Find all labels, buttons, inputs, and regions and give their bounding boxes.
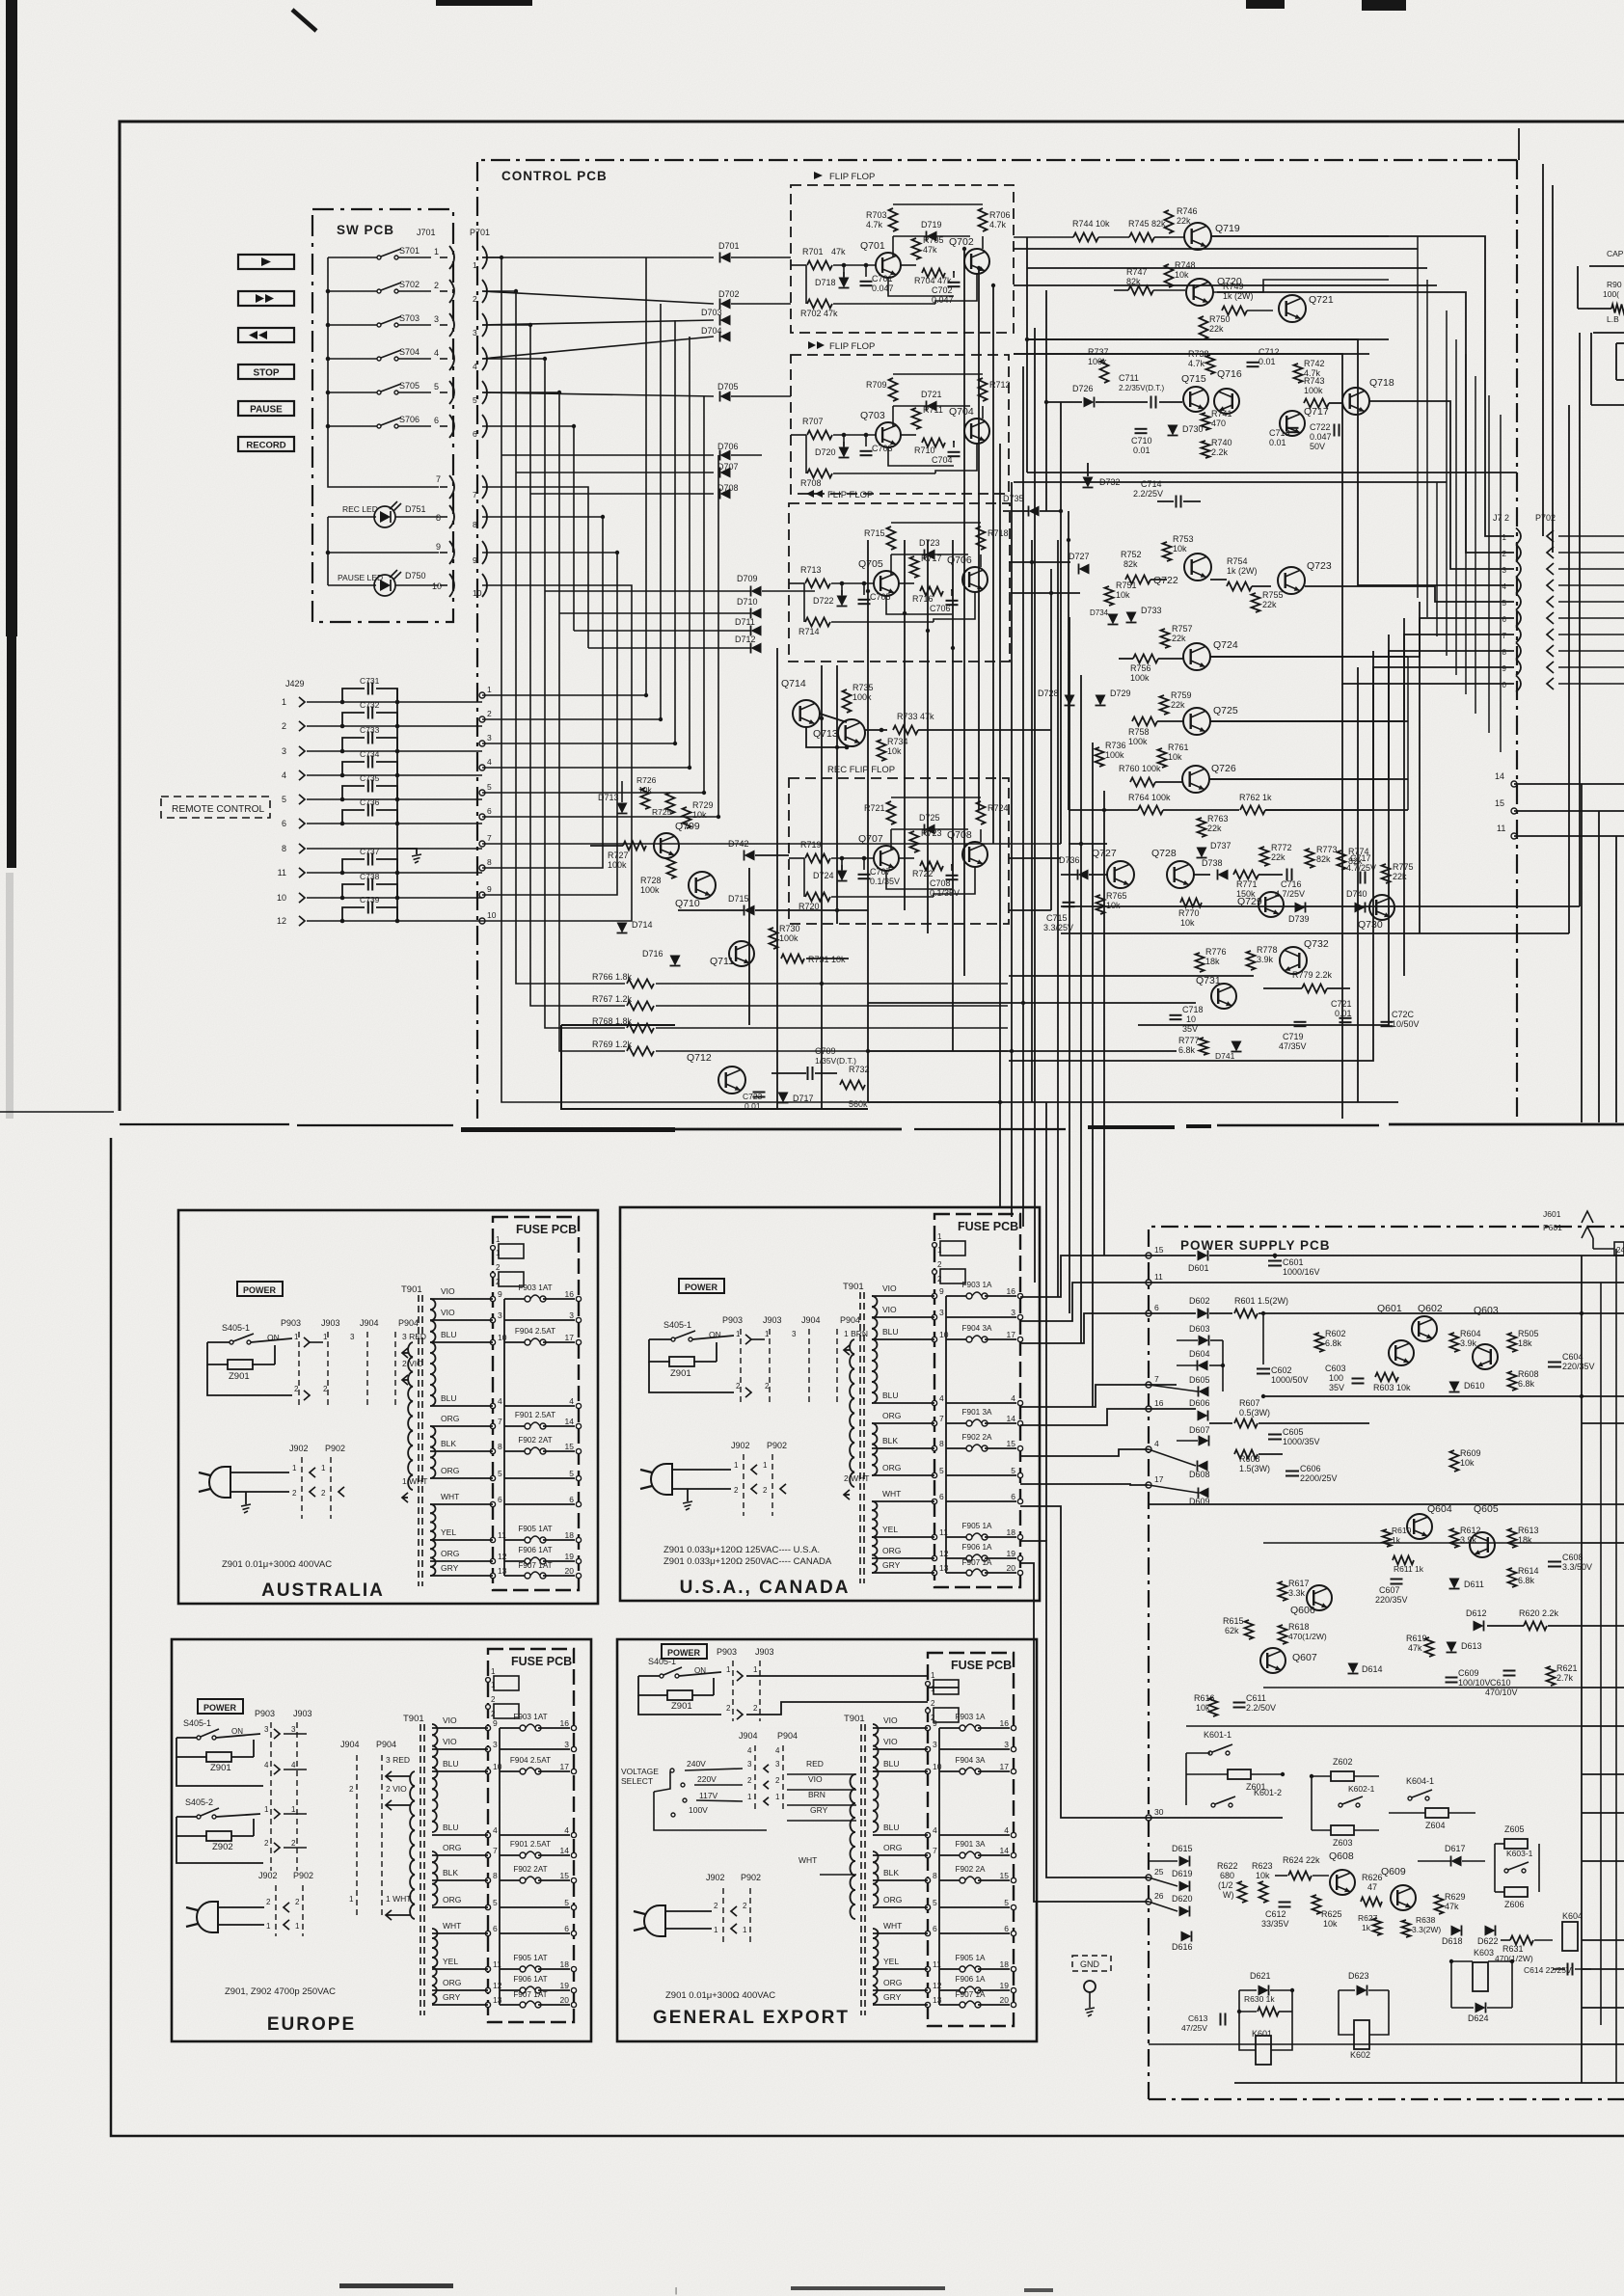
svg-text:7: 7 xyxy=(1154,1374,1159,1384)
USA_CANADA block outer box xyxy=(620,1207,1040,1601)
svg-text:240V: 240V xyxy=(687,1759,706,1769)
svg-text:R765: R765 xyxy=(1106,891,1127,901)
svg-text:10k: 10k xyxy=(1175,270,1189,280)
capacitor C713 xyxy=(1286,427,1299,429)
svg-text:C604: C604 xyxy=(1562,1352,1583,1362)
svg-text:4: 4 xyxy=(498,1396,502,1406)
svg-text:FUSE PCB: FUSE PCB xyxy=(511,1655,572,1668)
svg-text:470(1/2W): 470(1/2W) xyxy=(1288,1632,1327,1641)
svg-text:R763: R763 xyxy=(1207,814,1229,824)
svg-text:5: 5 xyxy=(282,795,286,804)
svg-text:D725: D725 xyxy=(919,813,940,823)
svg-text:F906 1A: F906 1A xyxy=(962,1543,992,1552)
GENERAL_EXPORT varistor Z901 xyxy=(638,1676,667,1695)
svg-text:SELECT: SELECT xyxy=(621,1776,653,1786)
svg-text:3: 3 xyxy=(350,1333,355,1341)
wire FLIP FLOP internals xyxy=(890,554,892,576)
svg-text:CAP: CAP xyxy=(1607,249,1624,258)
capacitor C702 xyxy=(948,282,961,284)
svg-text:R749: R749 xyxy=(1223,282,1244,291)
GENERAL_EXPORT fuse box inner vertical xyxy=(938,1728,940,2005)
diode D601 xyxy=(1149,1255,1196,1256)
svg-text:C736: C736 xyxy=(360,797,380,807)
svg-text:T901: T901 xyxy=(844,1714,865,1724)
svg-text:Q714: Q714 xyxy=(781,678,806,689)
transistor Q709 xyxy=(654,833,679,858)
svg-text:BLK: BLK xyxy=(441,1439,456,1448)
svg-text:100k: 100k xyxy=(779,933,798,943)
svg-text:GRY: GRY xyxy=(441,1563,459,1573)
FLIP FLOP title xyxy=(814,172,823,179)
capacitor C739 xyxy=(342,907,365,921)
diode D710 xyxy=(751,608,762,619)
resistor R742 xyxy=(1294,364,1303,383)
svg-text:3: 3 xyxy=(747,1760,752,1769)
EUROPE fuse row pin 4-4 xyxy=(485,1832,490,1837)
svg-text:13: 13 xyxy=(939,1563,949,1573)
GENERAL_EXPORT fuse row pin 5-5 xyxy=(925,1904,930,1909)
svg-text:4: 4 xyxy=(939,1393,944,1403)
svg-text:7: 7 xyxy=(473,490,477,500)
svg-text:100/10V: 100/10V xyxy=(1458,1678,1491,1688)
svg-text:R756: R756 xyxy=(1130,663,1151,673)
svg-text:D714: D714 xyxy=(632,920,653,930)
svg-text:D624: D624 xyxy=(1468,2013,1489,2023)
bus wire remote pin 2 xyxy=(482,304,661,719)
svg-text:R767 1.2k: R767 1.2k xyxy=(592,994,633,1004)
svg-text:S405-1: S405-1 xyxy=(222,1323,250,1333)
svg-text:1: 1 xyxy=(349,1895,354,1904)
svg-text:19: 19 xyxy=(1007,1549,1016,1558)
wire FLIP FLOP input node xyxy=(843,265,845,277)
transistor Q728 xyxy=(1167,861,1194,888)
svg-text:ORG: ORG xyxy=(441,1414,459,1423)
svg-text:F902 2AT: F902 2AT xyxy=(518,1436,552,1445)
svg-text:R762 1k: R762 1k xyxy=(1239,793,1272,802)
wire FLIP FLOP internals xyxy=(892,236,894,257)
resistor R605 xyxy=(1508,1333,1517,1352)
diode D732 xyxy=(1083,477,1094,488)
EUROPE transformer primary winding xyxy=(410,1771,415,1919)
EUROPE fuse row pin 7-14 xyxy=(485,1852,490,1857)
resistor R717 xyxy=(910,556,919,578)
svg-text:D704: D704 xyxy=(701,326,722,336)
svg-text:F902 2A: F902 2A xyxy=(956,1865,986,1874)
svg-text:1: 1 xyxy=(295,1922,300,1931)
AUSTRALIA varistor Z901 xyxy=(207,1342,229,1364)
resistor R761 xyxy=(1158,748,1167,768)
svg-text:R505: R505 xyxy=(1518,1329,1539,1338)
EUROPE fuse row pin 13-20 xyxy=(485,2002,490,2007)
resistor R617 xyxy=(1279,1581,1287,1601)
svg-text:R732: R732 xyxy=(849,1065,870,1074)
svg-text:J902: J902 xyxy=(706,1873,725,1882)
svg-text:T901: T901 xyxy=(403,1714,424,1724)
svg-text:C72C: C72C xyxy=(1392,1010,1415,1019)
EUROPE fuse row pin 6-6 xyxy=(485,1931,490,1935)
transistor Q708 xyxy=(962,842,988,867)
resistor R610 xyxy=(1383,1529,1392,1547)
diode D702 xyxy=(482,291,714,304)
svg-text:18: 18 xyxy=(565,1530,575,1540)
svg-text:C705: C705 xyxy=(870,592,891,602)
svg-text:R764 100k: R764 100k xyxy=(1128,793,1171,802)
svg-text:100k: 100k xyxy=(640,885,660,895)
svg-text:15: 15 xyxy=(1000,1871,1010,1880)
svg-text:8: 8 xyxy=(498,1442,502,1451)
wire FLIP FLOP internals xyxy=(892,406,894,427)
svg-text:47k: 47k xyxy=(1445,1902,1459,1911)
svg-text:4.7k: 4.7k xyxy=(866,220,883,230)
svg-text:Z901 0.01μ+300Ω 400VAC: Z901 0.01μ+300Ω 400VAC xyxy=(222,1559,332,1570)
svg-text:D611: D611 xyxy=(1464,1580,1484,1589)
svg-text:2: 2 xyxy=(264,1839,269,1848)
EUROPE fuse row pin 9-16 xyxy=(485,1725,490,1730)
capacitor C701 xyxy=(860,281,873,283)
capacitor C603 xyxy=(1352,1378,1365,1380)
svg-text:T901: T901 xyxy=(843,1282,864,1292)
svg-text:R745 82k: R745 82k xyxy=(1128,219,1166,229)
diode D711 xyxy=(751,626,762,636)
svg-text:R722: R722 xyxy=(912,869,934,878)
svg-text:POWER: POWER xyxy=(243,1285,277,1295)
capacitor C717 xyxy=(1360,872,1362,884)
svg-text:2.2/50V: 2.2/50V xyxy=(1246,1703,1276,1713)
wires relay section xyxy=(1185,1753,1187,1805)
svg-text:1: 1 xyxy=(491,1681,496,1689)
bus wire from P701 pin 1 xyxy=(482,257,1003,1102)
svg-text:D751: D751 xyxy=(405,504,426,514)
svg-text:100k: 100k xyxy=(608,860,627,870)
svg-text:4.7k: 4.7k xyxy=(989,220,1007,230)
capacitor C733 xyxy=(342,738,365,751)
svg-text:22k: 22k xyxy=(1271,852,1286,862)
svg-text:1: 1 xyxy=(1502,533,1507,542)
svg-text:8: 8 xyxy=(473,520,477,529)
svg-text:2: 2 xyxy=(291,1839,296,1848)
svg-text:Q721: Q721 xyxy=(1309,294,1334,306)
svg-text:1: 1 xyxy=(291,1805,296,1814)
svg-text:100k: 100k xyxy=(1304,386,1323,395)
diode D727 xyxy=(1079,564,1090,575)
svg-text:2: 2 xyxy=(726,1704,731,1713)
svg-text:CONTROL PCB: CONTROL PCB xyxy=(501,169,608,183)
svg-text:WHT: WHT xyxy=(883,1921,902,1931)
svg-text:F903 1AT: F903 1AT xyxy=(513,1713,547,1721)
svg-text:3 RED: 3 RED xyxy=(386,1755,410,1765)
transistor Q724 xyxy=(1183,643,1210,670)
capacitor C712 xyxy=(1247,362,1259,364)
diode D709 xyxy=(751,586,762,597)
svg-text:R751: R751 xyxy=(1116,581,1137,590)
resistor R757 xyxy=(1161,629,1170,648)
resistor R732 xyxy=(840,1081,865,1090)
svg-text:15: 15 xyxy=(565,1442,575,1451)
svg-text:D716: D716 xyxy=(642,949,663,959)
resistor R738 xyxy=(1206,355,1215,374)
diode D714 xyxy=(617,923,628,933)
svg-text:VIO: VIO xyxy=(883,1737,898,1746)
AUSTRALIA fuse row pin 4-4 xyxy=(490,1403,495,1408)
capacitor C735 xyxy=(342,786,365,799)
svg-text:6: 6 xyxy=(1154,1303,1159,1312)
svg-text:12: 12 xyxy=(498,1552,507,1561)
diode D612 xyxy=(1474,1621,1484,1632)
diode D733 xyxy=(1126,612,1137,623)
svg-text:10k: 10k xyxy=(1116,590,1130,600)
transistor Q723 xyxy=(1278,567,1305,594)
svg-text:6: 6 xyxy=(498,1495,502,1504)
svg-text:R725: R725 xyxy=(652,807,672,817)
svg-text:0.1/35V: 0.1/35V xyxy=(870,877,900,886)
diode D719 xyxy=(893,235,970,237)
capacitor C704 xyxy=(948,451,961,453)
USA_CANADA varistor Z901 xyxy=(649,1339,670,1362)
capacitor C708 xyxy=(946,875,959,877)
AUSTRALIA wire to pin 2 xyxy=(207,1364,292,1395)
transistor Q705 xyxy=(874,571,899,596)
svg-text:Q726: Q726 xyxy=(1211,763,1236,774)
svg-text:8: 8 xyxy=(939,1439,944,1448)
resistor R625 xyxy=(1313,1895,1321,1914)
svg-text:6: 6 xyxy=(282,819,286,828)
svg-text:D607: D607 xyxy=(1189,1425,1210,1435)
AUSTRALIA fuse row pin 5-5 xyxy=(490,1475,495,1480)
svg-text:2: 2 xyxy=(491,1695,496,1704)
switch S701 xyxy=(328,257,379,258)
capacitor C614 xyxy=(1567,1963,1569,1976)
svg-text:D722: D722 xyxy=(813,596,834,606)
svg-text:14: 14 xyxy=(1000,1846,1010,1855)
resistor R710 xyxy=(922,439,945,447)
svg-text:R779 2.2k: R779 2.2k xyxy=(1292,970,1333,980)
svg-text:R701: R701 xyxy=(802,247,824,257)
svg-text:R619: R619 xyxy=(1406,1634,1427,1643)
svg-text:VIO: VIO xyxy=(443,1715,457,1725)
svg-text:RECORD: RECORD xyxy=(246,441,285,451)
svg-text:2: 2 xyxy=(734,1486,739,1495)
svg-text:R777: R777 xyxy=(1178,1036,1200,1045)
svg-text:F903 1AT: F903 1AT xyxy=(518,1283,552,1292)
svg-text:BLK: BLK xyxy=(882,1436,898,1445)
svg-text:16: 16 xyxy=(1154,1398,1164,1408)
svg-text:S405-1: S405-1 xyxy=(183,1718,211,1728)
resistor R706 xyxy=(979,208,988,231)
svg-text:S702: S702 xyxy=(399,280,420,289)
svg-text:D601: D601 xyxy=(1188,1263,1209,1273)
resistor R611 xyxy=(1393,1556,1414,1565)
svg-text:100k: 100k xyxy=(1130,673,1150,683)
svg-text:P904: P904 xyxy=(398,1318,419,1328)
svg-text:1.5(3W): 1.5(3W) xyxy=(1239,1464,1270,1473)
svg-text:S701: S701 xyxy=(399,246,420,256)
capacitor C706 xyxy=(946,600,959,602)
transistor Q727 xyxy=(1107,861,1134,888)
svg-text:VIO: VIO xyxy=(882,1305,897,1314)
svg-text:J903: J903 xyxy=(321,1318,340,1328)
svg-text:Z901: Z901 xyxy=(229,1371,250,1382)
svg-text:D740: D740 xyxy=(1346,889,1367,899)
EUROPE fuse row pin 11-18 xyxy=(485,1966,490,1971)
resistor R704 xyxy=(922,269,945,278)
svg-text:6: 6 xyxy=(473,429,477,439)
svg-text:P902: P902 xyxy=(325,1444,345,1453)
svg-text:P904: P904 xyxy=(376,1740,396,1749)
svg-text:R621: R621 xyxy=(1556,1663,1578,1673)
svg-text:2.7k: 2.7k xyxy=(1556,1673,1574,1683)
resistor R621 xyxy=(1547,1666,1556,1686)
power supply left edge pins xyxy=(1146,1253,1151,1258)
resistor R723 xyxy=(910,831,919,852)
diode D623 xyxy=(1357,1985,1367,1996)
svg-text:Z902: Z902 xyxy=(212,1842,233,1852)
diode D605 xyxy=(1199,1387,1209,1397)
svg-text:15: 15 xyxy=(1007,1439,1016,1448)
svg-text:ORG: ORG xyxy=(443,1895,461,1904)
svg-text:117V: 117V xyxy=(699,1791,718,1800)
svg-text:C711: C711 xyxy=(1119,373,1139,383)
USA_CANADA FUSE PCB box xyxy=(934,1214,1020,1587)
svg-text:FUSE PCB: FUSE PCB xyxy=(958,1220,1018,1233)
GENERAL_EXPORT POWER label xyxy=(662,1644,707,1659)
svg-text:D742: D742 xyxy=(728,839,749,849)
svg-text:1: 1 xyxy=(491,1667,496,1676)
svg-text:Z901: Z901 xyxy=(670,1368,691,1379)
svg-text:R735: R735 xyxy=(853,683,874,692)
resistor R614 xyxy=(1508,1568,1517,1587)
svg-text:6: 6 xyxy=(493,1924,498,1933)
capacitor C722 xyxy=(1334,424,1336,437)
svg-text:POWER: POWER xyxy=(685,1283,718,1292)
capacitor C723 xyxy=(753,1092,766,1094)
J701-P701 connector pins xyxy=(449,246,454,269)
svg-text:1: 1 xyxy=(753,1665,758,1674)
svg-text:D720: D720 xyxy=(815,447,836,457)
svg-text:2: 2 xyxy=(937,1275,942,1283)
resistor R734 xyxy=(878,740,886,761)
svg-text:6: 6 xyxy=(569,1495,574,1504)
svg-text:R718: R718 xyxy=(988,528,1009,538)
svg-text:1: 1 xyxy=(323,1333,328,1341)
svg-text:9: 9 xyxy=(493,1718,498,1728)
svg-text:R746: R746 xyxy=(1177,206,1198,216)
resistor R774 xyxy=(1338,851,1346,870)
svg-text:1k (2W): 1k (2W) xyxy=(1227,566,1258,576)
wires below J702 descend xyxy=(1341,684,1343,1119)
svg-text:D708: D708 xyxy=(717,483,739,493)
bus wire from P701 pin 10 xyxy=(482,585,632,921)
svg-text:F905 1A: F905 1A xyxy=(962,1522,992,1530)
svg-text:3.3(2W): 3.3(2W) xyxy=(1412,1925,1441,1934)
resistor R755 xyxy=(1252,593,1260,612)
svg-text:GENERAL EXPORT: GENERAL EXPORT xyxy=(653,2008,850,2028)
svg-text:D709: D709 xyxy=(737,574,758,583)
svg-text:1: 1 xyxy=(473,260,477,270)
svg-text:2: 2 xyxy=(295,1898,300,1906)
wire FLIP FLOP top rail xyxy=(893,373,983,375)
svg-text:P701: P701 xyxy=(470,228,490,237)
svg-text:C734: C734 xyxy=(360,749,380,759)
svg-text:P902: P902 xyxy=(767,1441,787,1450)
svg-text:R614: R614 xyxy=(1518,1566,1539,1576)
capacitor C710 xyxy=(1135,428,1148,430)
resistor R775 xyxy=(1382,864,1391,883)
EUROPE mains plug xyxy=(197,1902,218,1932)
svg-text:8: 8 xyxy=(1502,648,1507,657)
GENERAL_EXPORT fuse row pin 3-3 xyxy=(925,1746,930,1751)
AUSTRALIA block outer box xyxy=(178,1210,598,1604)
svg-text:2: 2 xyxy=(321,1489,326,1498)
capacitor C731 xyxy=(342,689,365,702)
svg-text:33/35V: 33/35V xyxy=(1261,1919,1289,1929)
svg-text:BRN: BRN xyxy=(808,1790,826,1799)
svg-text:47k: 47k xyxy=(923,245,937,255)
svg-text:R743: R743 xyxy=(1304,376,1325,386)
svg-text:10: 10 xyxy=(487,910,497,920)
resistor R714 xyxy=(803,583,805,622)
svg-text:C712: C712 xyxy=(1259,347,1280,357)
resistor R703 xyxy=(889,208,898,231)
diode D703 xyxy=(482,320,714,325)
svg-text:3: 3 xyxy=(282,746,286,756)
svg-text:WHT: WHT xyxy=(882,1489,901,1499)
svg-text:1 WHT: 1 WHT xyxy=(386,1894,411,1904)
svg-text:C718: C718 xyxy=(1182,1005,1204,1014)
transistor Q609 xyxy=(1391,1885,1416,1910)
power supply right extra rail xyxy=(1615,1249,1617,2083)
svg-text:10: 10 xyxy=(277,893,286,903)
bus wire remote pin 4 xyxy=(482,337,690,768)
capacitor C604 xyxy=(1548,1362,1561,1364)
USA_CANADA fuse row pin 5-5 xyxy=(932,1472,936,1477)
transistor Q721 xyxy=(1279,295,1306,322)
diode D734 xyxy=(1108,614,1119,625)
svg-text:F903 1A: F903 1A xyxy=(962,1281,992,1289)
svg-text:C614 22/25V: C614 22/25V xyxy=(1524,1965,1572,1975)
svg-text:Z901: Z901 xyxy=(210,1763,231,1773)
svg-text:20: 20 xyxy=(560,1995,570,2005)
svg-text:Z901 0.01μ+300Ω 400VAC: Z901 0.01μ+300Ω 400VAC xyxy=(665,1990,775,2001)
svg-text:2.2/25V: 2.2/25V xyxy=(1133,489,1163,499)
resistor R765 xyxy=(1096,895,1105,914)
transistor Q707 xyxy=(874,846,899,871)
svg-text:Q607: Q607 xyxy=(1292,1652,1317,1663)
wire pin 11 rail xyxy=(1149,1282,1624,1283)
resistor R721 xyxy=(887,801,896,824)
resistor R708 xyxy=(805,435,807,473)
svg-text:Q718: Q718 xyxy=(1369,377,1394,389)
svg-text:FLIP FLOP: FLIP FLOP xyxy=(829,341,875,352)
svg-text:C606: C606 xyxy=(1300,1464,1321,1473)
svg-text:PAUSE: PAUSE xyxy=(250,405,283,416)
svg-text:F904 3A: F904 3A xyxy=(956,1756,986,1765)
diode D609 xyxy=(1199,1488,1209,1499)
capacitor C608 xyxy=(1548,1561,1561,1563)
capacitor C707 xyxy=(858,874,871,876)
svg-text:22k: 22k xyxy=(1171,700,1185,710)
svg-text:6: 6 xyxy=(1502,615,1507,624)
wire FLIP FLOP input node xyxy=(843,435,845,446)
svg-text:2: 2 xyxy=(714,1902,718,1910)
svg-text:100(: 100( xyxy=(1603,289,1619,299)
wire bundle right verticals xyxy=(1211,236,1514,536)
svg-text:Q728: Q728 xyxy=(1151,848,1177,859)
svg-text:YEL: YEL xyxy=(443,1957,458,1966)
svg-text:R776: R776 xyxy=(1205,947,1227,957)
EUROPE fuse row pin 5-5 xyxy=(485,1904,490,1909)
USA_CANADA transformer core xyxy=(859,1292,861,1583)
transistor Q716 xyxy=(1214,389,1239,414)
